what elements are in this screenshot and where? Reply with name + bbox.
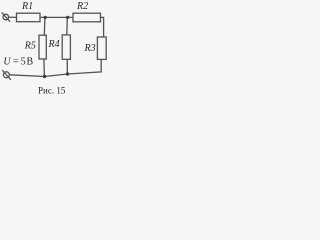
resistor R3 (97, 37, 106, 59)
wire R2 to R3 (right edge) (101, 17, 104, 37)
svg-text:R2: R2 (76, 1, 88, 12)
wire terminal X1 to R1 (9, 16, 17, 18)
background (0, 0, 110, 99)
svg-text:R3: R3 (84, 43, 96, 54)
resistor R2 (73, 13, 101, 22)
wire R3 to bottom bus (68, 59, 102, 74)
resistor R1 (17, 13, 41, 22)
resistor R4 (62, 35, 70, 59)
svg-text:U=5В: U=5В (3, 57, 33, 68)
wire R5 to bottom bus (43, 59, 46, 77)
terminal X1 (top input) (2, 12, 10, 21)
terminal X2 (bottom input) (2, 70, 11, 80)
node A (junction dot R5 tap) (44, 16, 47, 19)
wire R4 to bottom bus (66, 59, 68, 74)
bottom bus wire (10, 74, 68, 77)
node D (bottom junction dot at R4) (66, 72, 69, 75)
wire node A down to R5 (43, 17, 46, 35)
svg-text:Рис. 15: Рис. 15 (38, 86, 66, 96)
node B (junction dot R4 tap) (66, 16, 69, 19)
svg-text:R4: R4 (48, 39, 60, 50)
svg-text:R5: R5 (24, 40, 36, 51)
resistor R5 (39, 35, 46, 59)
node C (bottom junction dot at R5) (43, 75, 46, 78)
svg-text:R1: R1 (21, 1, 33, 12)
wire R1 to R2 (top bus) (40, 16, 73, 18)
wire node B down to R4 (66, 17, 69, 35)
